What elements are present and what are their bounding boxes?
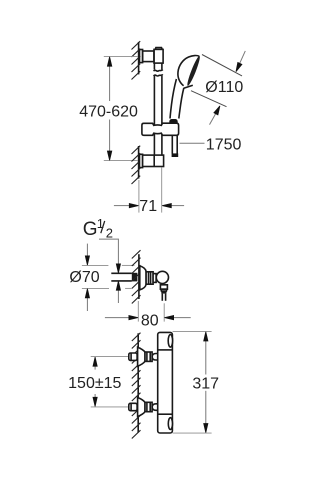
svg-text:317: 317 [192, 376, 219, 393]
svg-text:80: 80 [141, 313, 159, 330]
svg-text:150±15: 150±15 [68, 375, 121, 392]
svg-text:G: G [83, 219, 98, 240]
svg-text:1750: 1750 [206, 137, 242, 154]
svg-text:Ø110: Ø110 [205, 79, 243, 96]
svg-text:Ø70: Ø70 [69, 269, 99, 286]
svg-text:71: 71 [139, 198, 157, 215]
svg-text:2: 2 [106, 225, 113, 240]
svg-text:470-620: 470-620 [79, 103, 138, 120]
